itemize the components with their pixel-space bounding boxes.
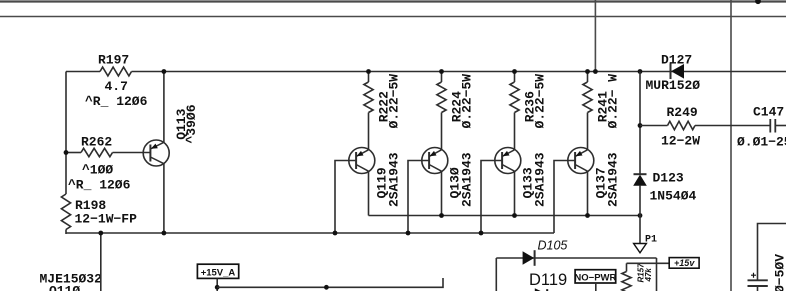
transistor Q133 2SA1943 bbox=[495, 148, 521, 174]
svg-text:D119: D119 bbox=[529, 271, 567, 289]
svg-text:D127: D127 bbox=[661, 53, 692, 68]
node Q133 collector junction bbox=[512, 213, 517, 218]
wire Q13&#216; base down bbox=[408, 161, 429, 234]
resistor R157 47k bbox=[622, 263, 653, 291]
resistor R236 bbox=[510, 72, 548, 150]
svg-text:^39Ø6: ^39Ø6 bbox=[184, 104, 199, 143]
svg-text:D105: D105 bbox=[538, 239, 568, 253]
wire R157 to +15v label bbox=[627, 262, 670, 264]
wire D105 cathode down right bbox=[656, 258, 658, 291]
node x595 rail junction bbox=[593, 69, 598, 74]
svg-text:4.7: 4.7 bbox=[105, 79, 128, 94]
wire Q113 emitter from rail bbox=[163, 72, 165, 143]
label NO-PWR box bbox=[574, 270, 616, 284]
node Q110 base junction bbox=[98, 231, 103, 236]
capacitor C147 bbox=[737, 105, 786, 150]
svg-text:+15v: +15v bbox=[674, 258, 695, 268]
connector P1 bbox=[634, 235, 657, 253]
wire Q137 base down bbox=[554, 161, 575, 234]
node D127 rail junction bbox=[638, 69, 643, 74]
svg-text:NO−PWR: NO−PWR bbox=[574, 272, 616, 283]
wire vertical bus at x=731 bbox=[730, 0, 732, 291]
wire Q119 collector down bbox=[368, 171, 370, 215]
wire +15V_A down bbox=[216, 278, 218, 291]
wire Q110 base down bbox=[100, 233, 102, 291]
wire vertical bus at x=595 bbox=[594, 0, 596, 72]
wire Q133 base down bbox=[481, 161, 502, 234]
svg-text:Ø.22− W: Ø.22− W bbox=[606, 74, 621, 129]
svg-text:R262: R262 bbox=[81, 135, 112, 150]
svg-text:2SA1943: 2SA1943 bbox=[460, 152, 475, 207]
svg-text:^R_ 12Ø6: ^R_ 12Ø6 bbox=[68, 178, 131, 193]
node rail junction x=326 bbox=[324, 285, 329, 290]
wire +15 rail y=287.3 bbox=[217, 278, 443, 287]
wire Q119 base down bbox=[335, 161, 356, 234]
wire vertical x=640 bbox=[639, 72, 641, 175]
wire main +rail y=71.5 bbox=[132, 71, 786, 73]
svg-text:Ø.22−5W: Ø.22−5W bbox=[460, 74, 475, 129]
node Q137 collector junction bbox=[585, 213, 590, 218]
svg-text:MUR152Ø: MUR152Ø bbox=[646, 78, 701, 93]
node +15V_A rail junction bbox=[215, 285, 220, 290]
resistor R249 bbox=[640, 105, 770, 149]
diode D119 bbox=[529, 271, 567, 291]
svg-text:P1: P1 bbox=[645, 235, 657, 246]
svg-text:Ø−5ØV: Ø−5ØV bbox=[773, 254, 786, 291]
label +15v box bbox=[669, 258, 699, 269]
node Q113 emitter rail junction bbox=[162, 69, 167, 74]
node Q113 collector junction bbox=[162, 231, 167, 236]
diode D127 MUR1520 bbox=[646, 53, 701, 94]
resistor R222 bbox=[364, 72, 402, 150]
svg-text:12−1W−FP: 12−1W−FP bbox=[75, 212, 138, 227]
diode D105 bbox=[496, 239, 656, 266]
resistor R241 bbox=[583, 72, 621, 150]
transistor Q137 2SA1943 bbox=[568, 148, 594, 174]
resistor R198 bbox=[61, 194, 137, 234]
node R222 rail junction bbox=[366, 69, 371, 74]
resistor R224 bbox=[437, 72, 475, 150]
node Q133 base junction bbox=[479, 231, 484, 236]
node R262 left junction bbox=[64, 150, 69, 155]
node R224 rail junction bbox=[439, 69, 444, 74]
svg-text:+15V_A: +15V_A bbox=[201, 267, 236, 278]
node R236 rail junction bbox=[512, 69, 517, 74]
svg-text:1N54Ø4: 1N54Ø4 bbox=[650, 189, 697, 204]
node Q13&#216; base junction bbox=[406, 231, 411, 236]
svg-text:Ø.Ø1−25: Ø.Ø1−25 bbox=[737, 135, 786, 150]
svg-text:47k: 47k bbox=[644, 268, 653, 283]
svg-text:Ø.22−5W: Ø.22−5W bbox=[387, 74, 402, 129]
wire D105 anode down to D119 bbox=[495, 258, 497, 291]
svg-text:D123: D123 bbox=[653, 171, 684, 186]
resistor R197 bbox=[66, 53, 148, 109]
svg-text:12−2W: 12−2W bbox=[661, 134, 700, 149]
transistor Q113 2N3906 bbox=[143, 140, 169, 166]
svg-text:2SA1943: 2SA1943 bbox=[387, 152, 402, 207]
svg-text:2SA1943: 2SA1943 bbox=[606, 152, 621, 207]
transistor Q13&#216; 2SA1943 bbox=[422, 148, 448, 174]
svg-text:R249: R249 bbox=[667, 105, 698, 120]
svg-text:C147: C147 bbox=[753, 105, 784, 120]
wire left rail top segment bbox=[65, 72, 67, 195]
wire base bus y=233 bbox=[66, 232, 554, 234]
node Q119 base junction bbox=[333, 231, 338, 236]
wire Q137 collector down bbox=[587, 171, 589, 215]
svg-text:R197: R197 bbox=[98, 53, 129, 68]
svg-text:2SA1943: 2SA1943 bbox=[533, 152, 548, 207]
node R249 junction on x=640 bbox=[638, 123, 643, 128]
wire Q13&#216; collector down bbox=[441, 171, 443, 215]
wire Q113 collector down bbox=[163, 163, 165, 233]
node R241 rail junction bbox=[585, 69, 590, 74]
svg-text:^1ØØ: ^1ØØ bbox=[82, 163, 113, 178]
diode D123 1N5404 bbox=[633, 171, 696, 244]
node Q13&#216; collector junction bbox=[439, 213, 444, 218]
wire collector bus y=215.5 bbox=[369, 215, 641, 217]
resistor R262 bbox=[66, 135, 150, 193]
capacitor C bottom right 0-50V bbox=[748, 224, 786, 291]
wire NO-PWR down bbox=[595, 283, 597, 291]
svg-text:^R_ 12Ø6: ^R_ 12Ø6 bbox=[85, 94, 148, 109]
label +15V_A box bbox=[197, 264, 238, 278]
transistor Q119 2SA1943 bbox=[349, 148, 375, 174]
wire second horizontal line bbox=[0, 16, 786, 18]
node on top border bbox=[755, 0, 761, 4]
node collector bus to D123 line bbox=[638, 213, 643, 218]
wire Q133 collector down bbox=[514, 171, 516, 215]
svg-text:Ø.22−5W: Ø.22−5W bbox=[533, 74, 548, 129]
wire top border line bbox=[0, 0, 786, 2]
svg-text:Q11Ø: Q11Ø bbox=[49, 284, 80, 291]
